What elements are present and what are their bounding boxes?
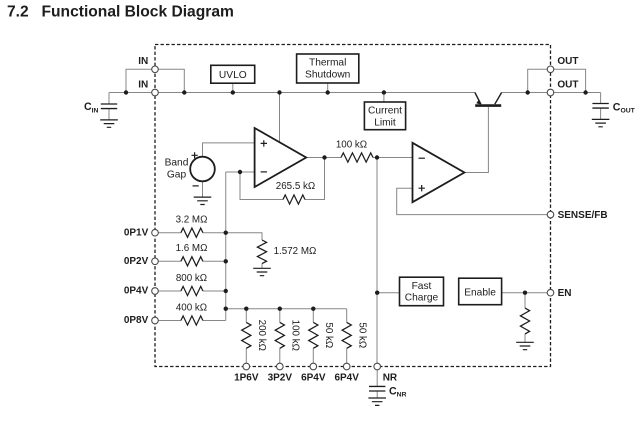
svg-text:OUT: OUT [557,56,578,67]
svg-text:CIN: CIN [84,101,99,114]
svg-text:100 kΩ: 100 kΩ [336,140,367,151]
svg-text:Gap: Gap [167,169,187,180]
svg-text:0P2V: 0P2V [124,256,149,267]
svg-text:50 kΩ: 50 kΩ [356,322,367,348]
svg-text:1.6 MΩ: 1.6 MΩ [176,243,208,254]
svg-text:Enable: Enable [464,287,496,298]
svg-text:7.2: 7.2 [7,3,29,20]
svg-text:NR: NR [383,373,398,384]
svg-text:UVLO: UVLO [219,70,247,81]
svg-text:Charge: Charge [405,293,439,304]
svg-text:3P2V: 3P2V [268,373,293,384]
svg-text:265.5 kΩ: 265.5 kΩ [276,181,315,192]
svg-text:6P4V: 6P4V [334,373,359,384]
svg-text:OUT: OUT [557,80,578,91]
svg-text:Limit: Limit [374,117,396,128]
svg-text:Thermal: Thermal [309,58,346,69]
svg-text:100 kΩ: 100 kΩ [289,320,300,351]
svg-text:3.2 MΩ: 3.2 MΩ [176,215,208,226]
svg-text:EN: EN [558,288,572,299]
svg-text:Band: Band [165,158,189,169]
svg-text:COUT: COUT [613,101,636,114]
svg-text:1.572 MΩ: 1.572 MΩ [274,246,317,257]
svg-text:50 kΩ: 50 kΩ [323,322,334,348]
svg-text:1P6V: 1P6V [234,373,259,384]
svg-text:200 kΩ: 200 kΩ [256,320,267,351]
svg-text:0P4V: 0P4V [124,286,149,297]
svg-text:Fast: Fast [412,281,432,292]
svg-text:SENSE/FB: SENSE/FB [558,210,608,221]
svg-text:6P4V: 6P4V [301,373,326,384]
svg-text:CNR: CNR [389,385,407,398]
svg-text:400 kΩ: 400 kΩ [176,302,207,313]
svg-text:Current: Current [368,106,402,117]
svg-text:IN: IN [138,56,148,67]
svg-text:0P8V: 0P8V [124,315,149,326]
svg-text:0P1V: 0P1V [124,227,149,238]
svg-text:IN: IN [138,80,148,91]
svg-text:Functional Block Diagram: Functional Block Diagram [42,3,234,20]
svg-text:800 kΩ: 800 kΩ [176,273,207,284]
svg-text:Shutdown: Shutdown [305,69,350,80]
